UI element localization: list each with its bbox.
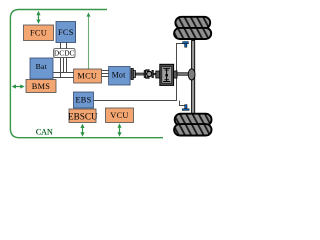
gearbox left stub [156, 71, 160, 78]
svg-text:DCDC: DCDC [54, 49, 75, 58]
motor shaft [135, 73, 144, 75]
green arrow FCU to CAN (double headed) [36, 11, 40, 24]
box Mot [109, 67, 131, 86]
gearbox right stub [174, 71, 177, 78]
wire MCU to Mot 3-phase (3 horizontal lines) [102, 71, 109, 77]
link to gearbox [153, 73, 155, 75]
green arrow BMS to CAN (double headed horizontal) [12, 84, 25, 88]
box Bat [30, 58, 53, 79]
wire FCS to DCDC (2 vertical lines) [61, 43, 67, 49]
wire DCDC to DC bus (3 vertical lines) [61, 57, 67, 78]
brake caliper top (blue) [183, 42, 189, 48]
wheel bottom (two hatched capsules) [174, 114, 211, 136]
box EBS [74, 92, 94, 108]
motor shaft collar 1 [131, 69, 133, 80]
svg-text:FCU: FCU [30, 29, 47, 38]
svg-text:EBS: EBS [75, 96, 91, 105]
box FCS [56, 22, 76, 43]
brake caliper bottom (blue) [182, 105, 189, 111]
box FCU [24, 25, 54, 41]
box BMS [26, 80, 56, 93]
svg-text:BMS: BMS [32, 82, 51, 91]
coupling circle [147, 71, 152, 76]
svg-text:MCU: MCU [77, 72, 97, 81]
green arrow VCU to CAN (double headed) [117, 123, 121, 136]
svg-text:FCS: FCS [58, 28, 74, 37]
box DCDC [54, 49, 75, 58]
green line MCU to CAN (arrow up at top) [87, 12, 91, 69]
motor shaft collar 2 [133, 71, 135, 78]
wire Bat to MCU DC bus (2 horizontal lines) [53, 73, 73, 78]
shaft gearbox to differential [177, 73, 189, 75]
wheel top (two hatched capsules) [174, 17, 211, 39]
svg-text:Bat: Bat [36, 62, 48, 71]
svg-text:VCU: VCU [110, 111, 128, 120]
svg-text:Mot: Mot [112, 71, 126, 80]
gearbox U1 [160, 64, 174, 85]
wire EBS brake line to wheels [94, 44, 185, 106]
coupling yoke [144, 70, 149, 79]
svg-text:EBSCU: EBSCU [68, 112, 98, 122]
svg-text:CAN: CAN [36, 127, 53, 136]
CAN bus loop (green open rounded rectangle) [10, 10, 163, 138]
box EBSCU [68, 109, 98, 123]
green arrow EBSCU to CAN (double headed) [80, 124, 84, 137]
differential ellipse [188, 69, 195, 80]
rear axle [192, 41, 195, 115]
CAN label [36, 127, 53, 136]
box VCU [106, 108, 134, 123]
coupling right bar [152, 70, 154, 77]
box MCU [74, 69, 102, 83]
